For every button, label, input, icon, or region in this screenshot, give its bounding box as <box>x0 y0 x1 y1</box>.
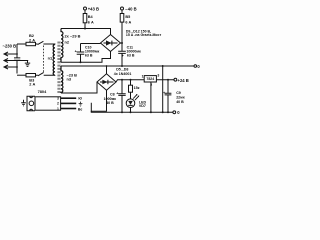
svg-text:+43 В: +43 В <box>88 6 99 11</box>
svg-text:6 А: 6 А <box>88 21 94 25</box>
svg-text:~230 В: ~230 В <box>3 44 17 49</box>
svg-text:+: + <box>122 54 125 58</box>
svg-text:1: 1 <box>57 107 59 111</box>
svg-text:+24 В: +24 В <box>178 78 189 83</box>
svg-text:63 В: 63 В <box>85 54 93 58</box>
svg-text:15к: 15к <box>134 86 140 90</box>
svg-text:0: 0 <box>177 110 180 115</box>
svg-text:40 В: 40 В <box>106 101 114 105</box>
svg-text:2 А: 2 А <box>29 81 35 86</box>
svg-text:VD7: VD7 <box>139 104 146 108</box>
svg-text:В5: В5 <box>125 15 130 19</box>
svg-text:2: 2 <box>150 83 152 87</box>
svg-text:2 А: 2 А <box>29 38 35 43</box>
svg-text:−40 В: −40 В <box>125 6 136 11</box>
svg-text:Ю: Ю <box>78 97 82 101</box>
svg-text:7824: 7824 <box>146 77 154 81</box>
svg-text:3: 3 <box>57 97 59 101</box>
svg-text:63 В: 63 В <box>127 53 135 57</box>
svg-text:22мк: 22мк <box>176 96 185 100</box>
svg-text:0: 0 <box>197 64 200 69</box>
svg-text:n1: n1 <box>48 55 53 60</box>
svg-text:C9: C9 <box>176 91 181 95</box>
svg-text:7804: 7804 <box>38 89 47 94</box>
svg-text:1: 1 <box>142 75 144 79</box>
svg-text:В4: В4 <box>88 15 94 19</box>
svg-text:2x ~29 В: 2x ~29 В <box>65 33 81 38</box>
svg-text:15 А -на Graetz-Мост: 15 А -на Graetz-Мост <box>126 33 162 37</box>
svg-text:Вє: Вє <box>78 108 83 112</box>
svg-text:6 А: 6 А <box>125 21 131 25</box>
svg-text:n2: n2 <box>65 39 70 44</box>
svg-text:D5...D8: D5...D8 <box>116 68 128 72</box>
svg-text:4x 1N4001: 4x 1N4001 <box>114 72 132 76</box>
svg-text:40 В: 40 В <box>176 100 184 104</box>
svg-text:2: 2 <box>57 102 59 106</box>
svg-text:3: 3 <box>157 74 159 78</box>
